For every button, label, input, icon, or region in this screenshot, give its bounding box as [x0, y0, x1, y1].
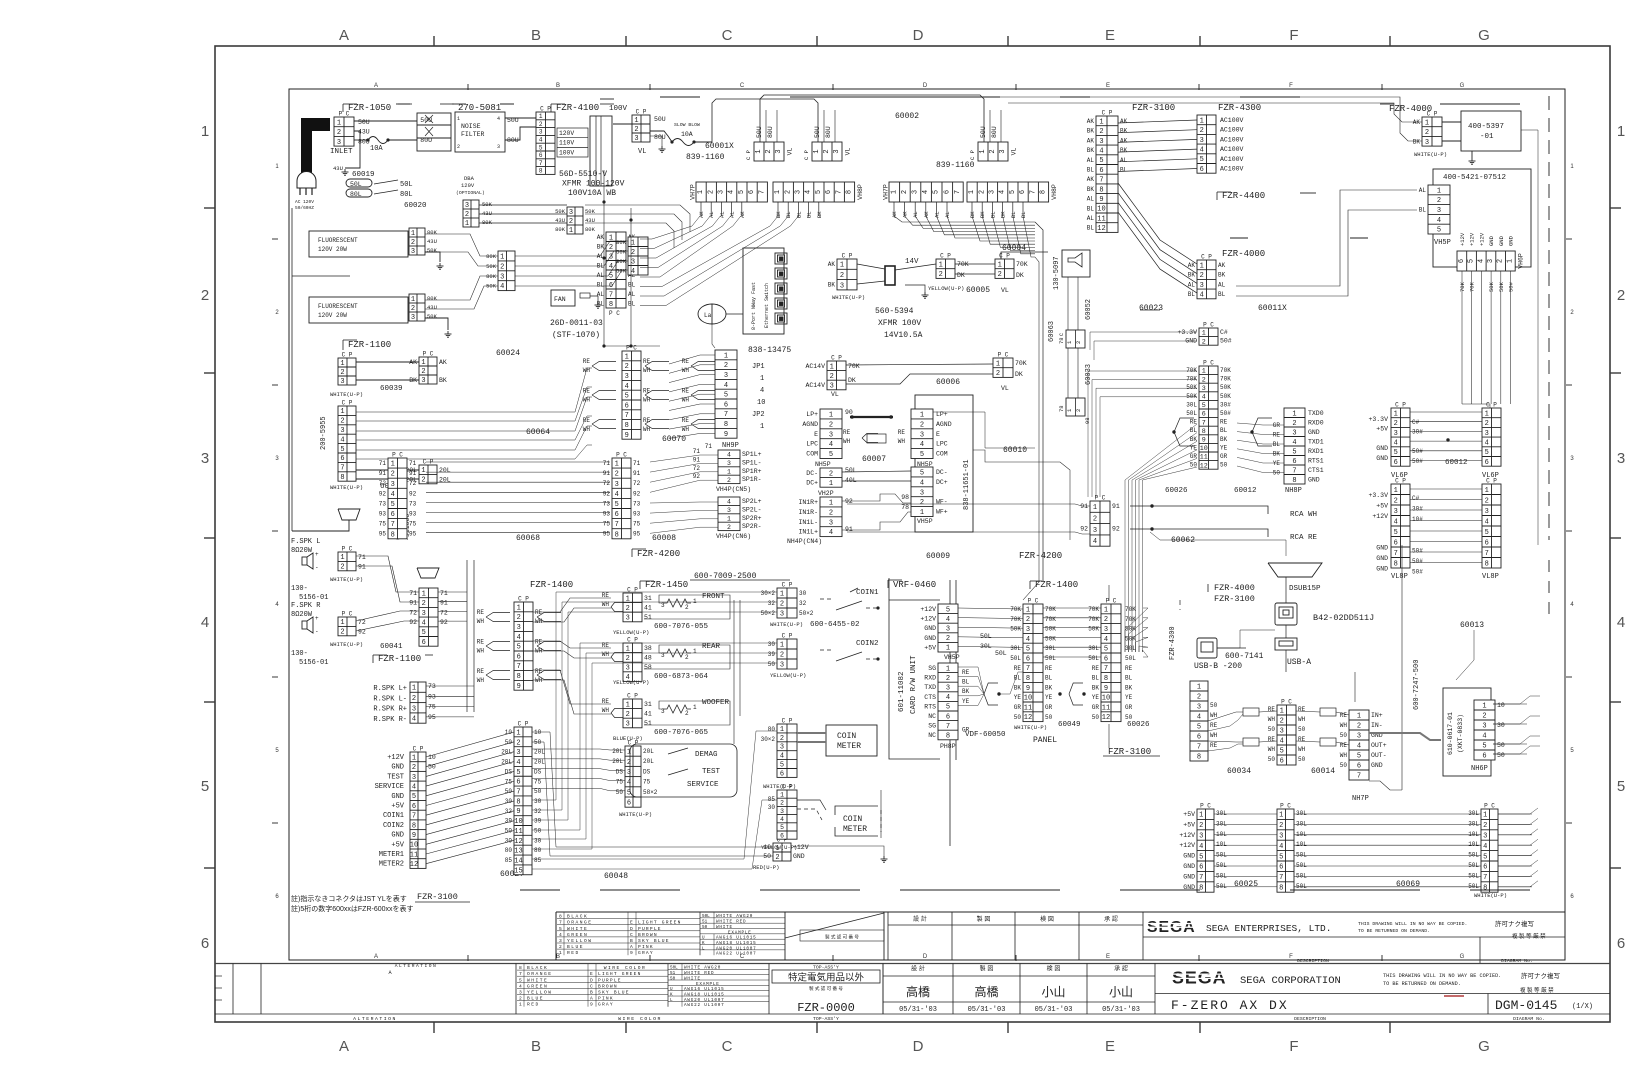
svg-text:3: 3 — [626, 615, 630, 623]
svg-text:1: 1 — [890, 190, 898, 194]
svg-text:THIS DRAWING WILL IN NO WAY BE: THIS DRAWING WILL IN NO WAY BE COPIED. — [1383, 973, 1501, 979]
diagram number cell — [1487, 994, 1489, 1015]
svg-text:43U: 43U — [482, 210, 492, 217]
svg-text:B: B — [531, 1038, 541, 1055]
svg-text:5: 5 — [412, 793, 416, 801]
svg-text:1: 1 — [516, 729, 520, 737]
svg-text:3: 3 — [718, 190, 726, 194]
svg-text:C: C — [630, 932, 633, 938]
svg-text:WHITE RED: WHITE RED — [716, 920, 746, 925]
svg-text:P C: P C — [1203, 360, 1214, 367]
svg-text:30L: 30L — [1010, 645, 1021, 652]
svg-text:3: 3 — [780, 611, 784, 619]
svg-text:2: 2 — [946, 635, 950, 643]
svg-text:2: 2 — [412, 695, 416, 703]
svg-text:80: 80 — [768, 726, 776, 733]
connector VL 3p — [632, 109, 650, 144]
svg-text:8: 8 — [1197, 754, 1201, 762]
svg-text:4: 4 — [1485, 439, 1489, 447]
svg-text:GND: GND — [1183, 873, 1195, 880]
connector 60008 — [612, 452, 631, 540]
svg-text:1: 1 — [939, 261, 943, 269]
svg-text:8: 8 — [539, 168, 543, 175]
svg-text:AC100V: AC100V — [1220, 136, 1244, 143]
svg-text:2: 2 — [840, 272, 844, 280]
svg-text:1: 1 — [519, 1002, 522, 1008]
svg-text:10: 10 — [1097, 206, 1105, 214]
svg-text:1: 1 — [755, 149, 763, 153]
svg-text:F: F — [1289, 83, 1293, 89]
svg-text:8: 8 — [1485, 560, 1489, 568]
svg-text:2: 2 — [1202, 376, 1206, 384]
svg-text:WHITE AWG20: WHITE AWG20 — [716, 914, 753, 919]
svg-text:VH5P: VH5P — [1434, 239, 1451, 247]
svg-text:60020: 60020 — [404, 202, 427, 210]
svg-text:AWG22 UL1007: AWG22 UL1007 — [716, 952, 757, 957]
svg-text:4: 4 — [922, 190, 930, 194]
svg-text:R.SPK R+: R.SPK R+ — [373, 706, 407, 714]
svg-text:設 計: 設 計 — [913, 915, 927, 923]
svg-text:50L: 50L — [1296, 852, 1307, 859]
svg-text:1: 1 — [1394, 487, 1398, 495]
connector FRONT conn — [623, 587, 642, 623]
VL conn riser wires — [765, 110, 767, 142]
switch TEST — [668, 769, 688, 775]
svg-text:OUT+: OUT+ — [1371, 742, 1387, 749]
pin leads VH8P-2 — [971, 202, 973, 216]
svg-text:2: 2 — [411, 239, 415, 247]
svg-text:93: 93 — [379, 511, 387, 518]
svg-text:WHITE(U-P): WHITE(U-P) — [330, 391, 363, 398]
svg-text:1: 1 — [1026, 606, 1030, 614]
svg-text:VL: VL — [638, 148, 646, 156]
svg-text:50#: 50# — [1412, 548, 1423, 555]
connector 26D 8p — [606, 232, 626, 309]
svg-text:3: 3 — [517, 624, 521, 632]
svg-text:RE: RE — [583, 358, 591, 365]
tweeter wires down — [1067, 277, 1069, 330]
svg-text:60014: 60014 — [1311, 767, 1335, 776]
svg-text:+5V: +5V — [1376, 426, 1388, 433]
svg-text:YELLOW(U-P): YELLOW(U-P) — [613, 629, 649, 636]
svg-text:複 製 等 厳 禁: 複 製 等 厳 禁 — [1512, 932, 1546, 940]
svg-text:VH2P: VH2P — [818, 490, 834, 497]
svg-text:BK: BK — [1087, 186, 1095, 193]
svg-text:2: 2 — [569, 218, 573, 226]
svg-text:F.SPK L: F.SPK L — [291, 538, 320, 546]
svg-text:50: 50 — [1273, 470, 1281, 477]
svg-text:E: E — [630, 920, 633, 926]
inner title block outline — [556, 911, 1565, 913]
svg-text:50: 50 — [1045, 714, 1053, 721]
svg-text:70K: 70K — [1125, 616, 1136, 623]
svg-text:FZR-3100: FZR-3100 — [1214, 594, 1255, 604]
svg-text:2: 2 — [340, 418, 344, 426]
VH6P leads — [1461, 271, 1463, 404]
svg-text:3: 3 — [946, 685, 950, 693]
svg-text:5: 5 — [625, 393, 629, 401]
svg-text:51: 51 — [702, 920, 708, 925]
svg-text:5: 5 — [738, 190, 746, 194]
svg-text:30: 30 — [768, 804, 776, 811]
svg-text:838-13475: 838-13475 — [748, 346, 791, 355]
svg-text:8: 8 — [946, 733, 950, 741]
svg-text:4: 4 — [1197, 714, 1201, 722]
svg-text:30L: 30L — [1296, 820, 1307, 827]
svg-text:2: 2 — [989, 149, 997, 153]
svg-text:30: 30 — [799, 590, 807, 597]
svg-text:3: 3 — [516, 749, 520, 757]
RCA RE jack — [1130, 529, 1268, 537]
svg-text:6: 6 — [1099, 167, 1103, 175]
svg-text:FZR-4200: FZR-4200 — [637, 549, 680, 559]
svg-text:3: 3 — [1394, 430, 1398, 438]
connector 70K VL — [993, 352, 1013, 379]
svg-text:CARD R/W UNIT: CARD R/W UNIT — [910, 655, 918, 714]
svg-text:C P: C P — [1427, 111, 1438, 118]
svg-text:7: 7 — [946, 723, 950, 731]
wires 60008 to SP2 — [650, 502, 718, 503]
svg-text:-: - — [315, 564, 319, 571]
svg-text:YELLOW(U-P): YELLOW(U-P) — [770, 672, 806, 679]
svg-text:7: 7 — [1202, 419, 1206, 427]
svg-text:610-0617-01: 610-0617-01 — [1447, 712, 1454, 755]
svg-text:13: 13 — [514, 848, 522, 856]
svg-text:PH8P: PH8P — [940, 743, 956, 750]
svg-text:51: 51 — [670, 971, 676, 976]
svg-text:1: 1 — [996, 360, 1000, 368]
svg-text:SG: SG — [928, 665, 936, 672]
svg-text:8: 8 — [1104, 675, 1108, 683]
svg-text:32: 32 — [768, 600, 776, 607]
svg-text:DK: DK — [957, 272, 965, 279]
svg-text:50K: 50K — [1186, 393, 1197, 400]
svg-text:838-11651-01: 838-11651-01 — [963, 460, 971, 510]
svg-text:C P: C P — [969, 150, 976, 160]
connector VL horizontal 1 — [754, 142, 794, 161]
svg-text:YE: YE — [1014, 694, 1022, 701]
svg-text:60023: 60023 — [1139, 304, 1163, 313]
svg-text:9: 9 — [412, 832, 416, 840]
svg-text:70K: 70K — [1010, 606, 1021, 613]
svg-text:3: 3 — [1357, 733, 1361, 741]
svg-text:A: A — [374, 954, 378, 960]
connector FZR-4100 — [536, 106, 555, 175]
svg-text:8: 8 — [615, 531, 619, 539]
svg-text:50: 50 — [1340, 762, 1348, 769]
svg-text:32: 32 — [534, 808, 542, 815]
svg-text:BK: BK — [962, 688, 970, 695]
connector 838-13475 9p — [715, 350, 737, 439]
wires 3p to box — [1442, 121, 1461, 123]
svg-text:2: 2 — [1099, 128, 1103, 136]
connector R.SPK conn — [410, 682, 426, 724]
connector 70K mid — [936, 253, 955, 280]
svg-text:98: 98 — [901, 494, 909, 501]
svg-text:50: 50 — [1298, 726, 1306, 733]
connector 70K right — [995, 253, 1014, 280]
svg-text:WH: WH — [898, 438, 906, 445]
svg-text:6: 6 — [1483, 864, 1487, 872]
svg-text:41: 41 — [644, 605, 652, 612]
svg-text:5: 5 — [1199, 853, 1203, 861]
designer columns — [882, 964, 884, 1015]
svg-text:50L: 50L — [350, 181, 362, 188]
inner frame row ticks — [272, 238, 278, 240]
svg-text:AC14V: AC14V — [805, 382, 825, 389]
svg-text:92: 92 — [409, 490, 417, 497]
svg-text:8: 8 — [517, 673, 521, 681]
svg-text:2: 2 — [685, 654, 689, 661]
svg-text:3: 3 — [1202, 385, 1206, 393]
connector VH5P — [1428, 185, 1450, 235]
svg-text:2: 2 — [516, 739, 520, 747]
svg-text:4: 4 — [780, 816, 784, 823]
svg-text:FZR-1100: FZR-1100 — [348, 340, 391, 350]
WOOFER crimp — [611, 709, 623, 714]
svg-text:小山: 小山 — [1109, 985, 1133, 999]
svg-text:4: 4 — [1279, 843, 1283, 851]
svg-text:2: 2 — [626, 711, 630, 719]
svg-text:GND: GND — [391, 764, 404, 772]
svg-text:85: 85 — [768, 796, 776, 803]
svg-text:12: 12 — [1097, 225, 1105, 233]
svg-text:2: 2 — [1279, 822, 1283, 830]
svg-text:50K: 50K — [1045, 635, 1056, 642]
connector SP1 — [718, 450, 740, 484]
svg-text:4: 4 — [1482, 733, 1486, 741]
wires meter2 — [797, 800, 826, 810]
noise filter input connector — [417, 113, 451, 151]
REAR crimp — [611, 653, 623, 658]
svg-text:BL: BL — [962, 679, 970, 686]
speaker — [302, 621, 307, 629]
svg-text:GRAY: GRAY — [638, 950, 654, 956]
connector VL6P L — [1391, 402, 1410, 467]
svg-text:8-Port NWay Fast: 8-Port NWay Fast — [751, 282, 757, 330]
svg-text:1: 1 — [1357, 713, 1361, 721]
svg-text:3: 3 — [421, 377, 425, 385]
svg-text:RCA RE: RCA RE — [1290, 534, 1318, 542]
svg-text:GND: GND — [1498, 235, 1505, 246]
svg-text:RXD0: RXD0 — [1308, 420, 1324, 427]
svg-text:AK: AK — [1087, 137, 1095, 144]
svg-text:5: 5 — [920, 469, 924, 477]
svg-text:6: 6 — [201, 935, 209, 952]
svg-text:8: 8 — [340, 474, 344, 482]
svg-text:USB-B -200: USB-B -200 — [1194, 662, 1242, 671]
svg-text:2: 2 — [609, 244, 613, 252]
svg-text:75: 75 — [379, 521, 387, 528]
svg-text:71: 71 — [409, 590, 417, 597]
svg-text:+12V: +12V — [1478, 232, 1485, 246]
svg-text:WHITE(U-P): WHITE(U-P) — [1474, 892, 1507, 899]
svg-text:D: D — [923, 954, 928, 960]
svg-text:80K: 80K — [585, 226, 596, 233]
svg-text:5: 5 — [1485, 529, 1489, 537]
svg-text:SP2L-: SP2L- — [742, 506, 762, 513]
svg-text:2: 2 — [421, 368, 425, 376]
svg-text:30L: 30L — [1088, 645, 1099, 652]
svg-text:10L: 10L — [1468, 831, 1479, 838]
svg-text:5: 5 — [1279, 853, 1283, 861]
svg-text:50L: 50L — [1296, 872, 1307, 879]
connector 8p left — [1190, 681, 1208, 762]
service enclosure — [630, 744, 737, 797]
svg-text:註)5桁の数字600xxはFZR-600xxを表す: 註)5桁の数字600xxはFZR-600xxを表す — [291, 904, 414, 913]
svg-text:58: 58 — [644, 664, 652, 671]
svg-text:6: 6 — [1197, 734, 1201, 742]
svg-text:P C: P C — [342, 546, 353, 553]
svg-text:8: 8 — [1394, 560, 1398, 568]
svg-text:D: D — [913, 1038, 924, 1055]
svg-text:30: 30 — [1497, 722, 1505, 729]
wires 60048 to coin connectors — [532, 592, 777, 800]
svg-text:60002: 60002 — [895, 112, 919, 121]
svg-text:50: 50 — [1125, 714, 1133, 721]
svg-text:RE: RE — [1045, 665, 1053, 672]
connector VL6P R — [1482, 402, 1501, 467]
svg-text:RE: RE — [583, 417, 591, 424]
svg-text:3: 3 — [569, 209, 573, 217]
svg-text:5: 5 — [1617, 778, 1625, 795]
wires 60034 to right crimps — [1296, 711, 1320, 712]
svg-text:WH: WH — [1340, 752, 1348, 759]
connector SP2 — [718, 497, 740, 531]
svg-text:1: 1 — [760, 423, 764, 431]
svg-text:YE: YE — [962, 698, 970, 705]
ethernet ports — [775, 253, 787, 264]
svg-text:3: 3 — [1199, 833, 1203, 841]
svg-text:C P: C P — [803, 150, 810, 160]
svg-text:2: 2 — [539, 121, 543, 128]
svg-text:4: 4 — [829, 441, 833, 449]
svg-text:WH: WH — [843, 438, 851, 445]
svg-text:50#: 50# — [1412, 448, 1423, 455]
svg-text:XFMR 100-120V: XFMR 100-120V — [562, 180, 625, 189]
svg-text:6: 6 — [724, 401, 728, 409]
svg-text:RE: RE — [1220, 419, 1228, 426]
wires 12pin to 4300 — [1118, 120, 1197, 123]
svg-text:6: 6 — [412, 803, 416, 811]
svg-text:LIGHT GREEN: LIGHT GREEN — [638, 920, 682, 926]
svg-text:(STF-1070): (STF-1070) — [552, 331, 600, 340]
wires 60048 to +12V GND conn — [532, 732, 773, 847]
svg-text:1: 1 — [1292, 410, 1296, 418]
svg-text:C P: C P — [782, 718, 793, 725]
svg-text:4: 4 — [920, 441, 924, 449]
wires mid conn to 80K conn — [515, 241, 628, 256]
svg-text:FZR-1450: FZR-1450 — [645, 580, 688, 590]
svg-text:1: 1 — [411, 296, 415, 304]
svg-text:C P: C P — [627, 637, 638, 644]
svg-text:92: 92 — [1080, 526, 1088, 533]
svg-text:WH: WH — [1210, 732, 1218, 739]
svg-text:3: 3 — [829, 431, 833, 439]
svg-text:NH8P: NH8P — [1285, 487, 1302, 495]
svg-text:10L: 10L — [1216, 831, 1227, 838]
svg-text:60006: 60006 — [936, 378, 960, 387]
svg-text:4: 4 — [539, 136, 543, 143]
svg-text:+3.3V: +3.3V — [1368, 492, 1388, 499]
svg-text:1: 1 — [1093, 504, 1097, 512]
svg-text:THIS DRAWING WILL IN NO WAY BE: THIS DRAWING WILL IN NO WAY BE COPIED. — [1358, 921, 1467, 927]
svg-text:5: 5 — [516, 769, 520, 777]
svg-text:6: 6 — [943, 190, 951, 194]
svg-text:8: 8 — [412, 822, 416, 830]
svg-text:GRAY: GRAY — [598, 1002, 614, 1008]
slash wires to 50L 80L labels — [374, 180, 398, 184]
svg-text:AK: AK — [1413, 119, 1421, 126]
crimp fans ladder — [1174, 418, 1194, 432]
svg-text:IN-: IN- — [1371, 722, 1383, 729]
svg-text:6: 6 — [1026, 655, 1030, 663]
svg-text:BK: BK — [775, 211, 782, 218]
USB B icon small — [1197, 638, 1217, 658]
svg-text:70K: 70K — [848, 363, 860, 370]
wire 50U to filter — [354, 120, 417, 122]
svg-text:WH: WH — [477, 647, 485, 654]
svg-text:C P: C P — [1395, 478, 1406, 485]
svg-text:50K: 50K — [486, 263, 497, 270]
svg-text:2: 2 — [829, 421, 833, 429]
svg-text:30#: 30# — [1220, 401, 1231, 408]
VL3 riser wires — [989, 110, 991, 142]
svg-text:600-7247-500: 600-7247-500 — [1413, 660, 1421, 710]
connector 200-5955 — [338, 400, 356, 483]
svg-text:2: 2 — [391, 471, 395, 479]
svg-text:6: 6 — [517, 653, 521, 661]
FRONT resistor — [663, 599, 691, 607]
78 98 connector B — [1066, 398, 1085, 416]
svg-text:60025: 60025 — [1234, 880, 1258, 889]
svg-text:2: 2 — [829, 470, 833, 478]
left vertical bus — [291, 208, 293, 531]
svg-text:+5V: +5V — [391, 803, 404, 811]
svg-text:5: 5 — [1009, 190, 1017, 194]
svg-text:VDF-60050: VDF-60050 — [965, 731, 1006, 739]
svg-text:1: 1 — [201, 123, 209, 140]
svg-text:30L: 30L — [1468, 820, 1479, 827]
ground under VL conn — [650, 136, 662, 146]
svg-text:B: B — [556, 83, 560, 89]
svg-text:4: 4 — [946, 616, 950, 624]
svg-text:DK: DK — [1015, 371, 1023, 378]
svg-text:+3.3V: +3.3V — [1368, 416, 1388, 423]
svg-text:5: 5 — [1202, 402, 1206, 410]
connector FZR-1450 9p — [514, 596, 533, 691]
svg-text:3: 3 — [340, 378, 344, 386]
svg-text:C P: C P — [782, 633, 793, 640]
svg-text:11: 11 — [514, 828, 522, 836]
610-0617-01 box — [1443, 688, 1491, 776]
svg-text:BL: BL — [795, 211, 802, 218]
svg-text:B: B — [590, 990, 593, 996]
connector F.SPK R conn — [338, 611, 356, 637]
svg-text:70K: 70K — [1186, 367, 1197, 374]
connector 80K 50K conn — [628, 237, 648, 276]
wires 60027 to 60048 — [426, 732, 514, 757]
svg-text:10L: 10L — [1296, 831, 1307, 838]
svg-text:50K: 50K — [1045, 626, 1056, 633]
svg-text:7: 7 — [1104, 665, 1108, 673]
svg-text:7: 7 — [340, 465, 344, 473]
connector coin meter2 conn — [777, 784, 797, 840]
svg-text:3: 3 — [912, 190, 920, 194]
wires 60048 to DEMAG conn — [532, 749, 625, 750]
svg-text:FLUORESCENT: FLUORESCENT — [318, 303, 358, 310]
svg-text:3: 3 — [1104, 626, 1108, 634]
